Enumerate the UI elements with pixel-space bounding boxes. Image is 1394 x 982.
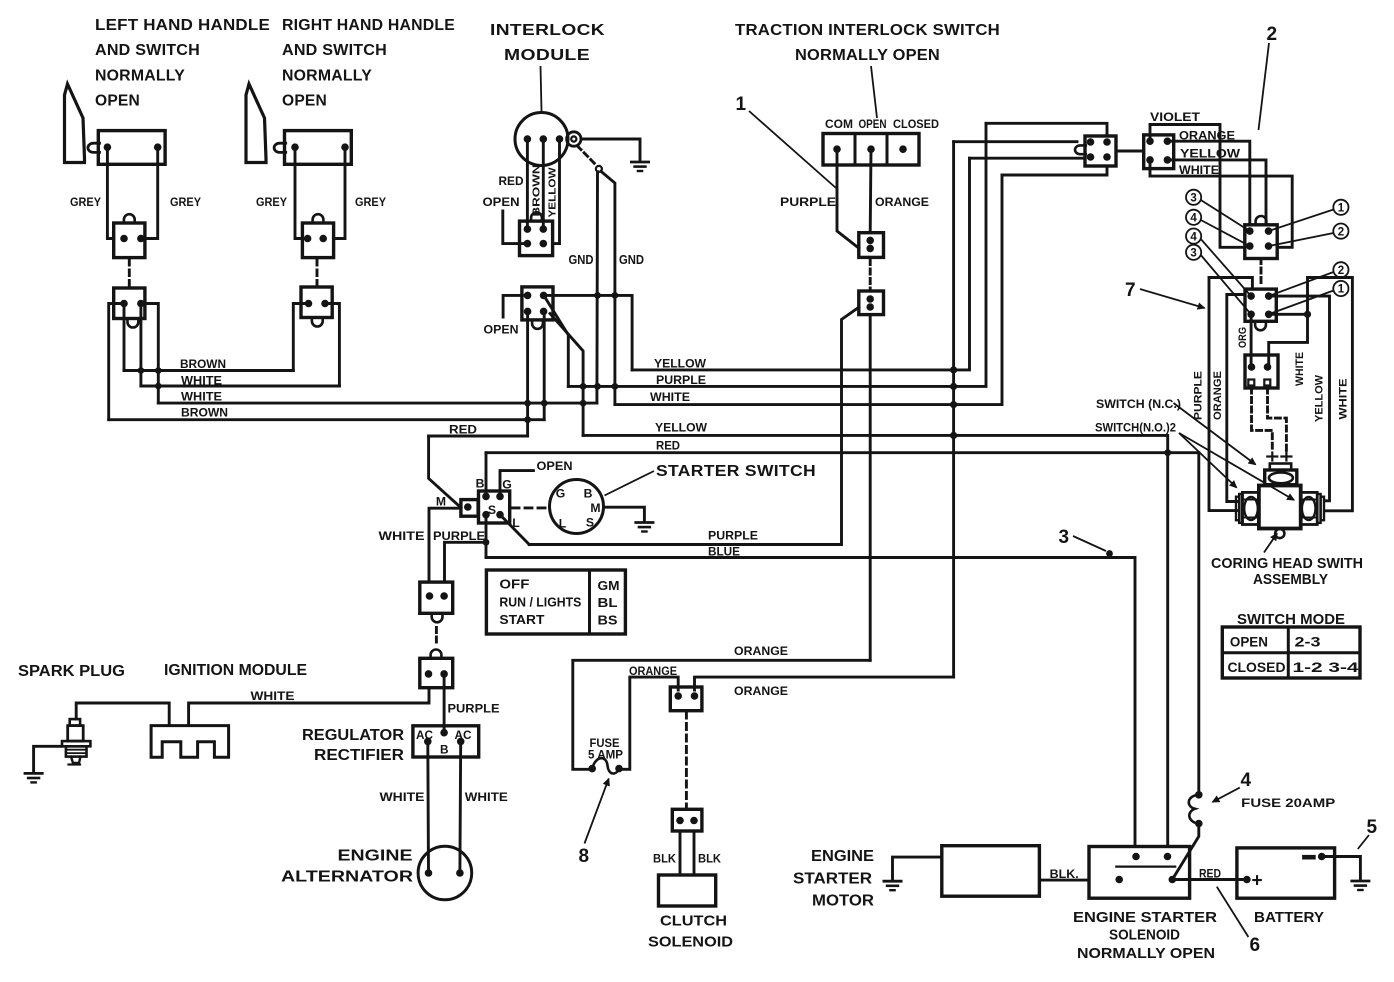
svg-text:YELLOW: YELLOW: [654, 357, 706, 371]
svg-text:3: 3: [1059, 527, 1070, 548]
svg-text:PURPLE: PURPLE: [708, 529, 758, 543]
ground (starter switch): [636, 521, 653, 524]
wire dashed mating link P1-P2: [128, 260, 131, 287]
handle switch S2 (right) body: [285, 131, 352, 165]
junction: [524, 416, 531, 423]
svg-text:PURPLE: PURPLE: [780, 195, 836, 209]
wire motor ground: [893, 857, 942, 880]
svg-text:GM: GM: [598, 578, 620, 593]
wire spark plug lead: [76, 703, 169, 726]
engine starter motor M1 body: [942, 846, 1040, 897]
wire dashed mating link P7-P8: [869, 260, 872, 290]
interlock module U1 body (circle): [515, 113, 568, 166]
fuse F2 20A element: [1189, 795, 1199, 824]
svg-text:BL: BL: [598, 595, 618, 610]
svg-text:CLOSED: CLOSED: [893, 117, 939, 131]
svg-text:8: 8: [579, 846, 590, 867]
svg-text:1: 1: [1338, 284, 1345, 296]
svg-text:RIGHT HAND HANDLE: RIGHT HAND HANDLE: [282, 17, 455, 34]
junction: [594, 383, 601, 390]
junction: [524, 400, 531, 407]
svg-text:OPEN: OPEN: [95, 93, 140, 110]
svg-text:S: S: [586, 516, 594, 530]
svg-text:OFF: OFF: [499, 577, 529, 592]
wire ORANGE line 1 (traction to fuse): [573, 660, 870, 769]
spark plug E1 body with thread: [66, 746, 87, 756]
svg-text:NORMALLY OPEN: NORMALLY OPEN: [1077, 945, 1215, 962]
svg-text:YELLOW: YELLOW: [547, 167, 558, 217]
main vertical bus x=953 (gnd net): [952, 142, 955, 677]
svg-text:OPEN: OPEN: [537, 459, 573, 473]
junction: [950, 401, 957, 408]
junction: [138, 367, 145, 374]
svg-text:ENGINE STARTER: ENGINE STARTER: [1073, 909, 1217, 926]
fuse F1 5A terminal dots: [588, 765, 596, 773]
svg-text:3: 3: [1190, 248, 1196, 260]
wire ORG from P12 to P13: [1250, 314, 1253, 367]
svg-text:2: 2: [1338, 265, 1344, 277]
svg-text:WHITE: WHITE: [650, 390, 690, 404]
svg-text:OPEN: OPEN: [483, 195, 520, 209]
svg-text:SWITCH(N.O.)2: SWITCH(N.O.)2: [1095, 421, 1176, 435]
svg-text:YELLOW: YELLOW: [1180, 146, 1240, 160]
wire dashed S link: [512, 506, 549, 509]
wire dashed coring switch lead 2: [1268, 388, 1287, 452]
wire PURPLE to regulator connector: [445, 542, 487, 582]
wire rail (yellow) to P9 bottom-left pin: [970, 157, 1086, 160]
circled pin number 4: [1186, 210, 1201, 225]
wire GREY (left handle, left): [107, 147, 113, 238]
spark plug E1 flange: [62, 741, 90, 746]
svg-text:4: 4: [1190, 231, 1197, 243]
svg-text:5 AMP: 5 AMP: [588, 748, 623, 762]
handle switch S1 terminals: [104, 143, 112, 151]
svg-text:1-2 3-4: 1-2 3-4: [1293, 660, 1360, 675]
svg-text:OPEN: OPEN: [859, 117, 887, 131]
connector P8 (traction lower): [859, 291, 884, 315]
svg-text:GREY: GREY: [170, 195, 201, 209]
wire WHITE inner to P13: [1269, 314, 1308, 367]
spark plug E1 cap: [70, 719, 80, 726]
leader circled 4 to pin: [1201, 220, 1250, 246]
wire BROWN bus (upper): [124, 369, 293, 372]
wire RED slant into M bracket: [429, 436, 461, 508]
wire GREY (left handle, right): [145, 147, 158, 238]
svg-text:BATTERY: BATTERY: [1254, 909, 1324, 926]
svg-text:L: L: [559, 517, 567, 531]
spark plug E1 tip: [71, 757, 81, 763]
starter switch S4 connector body: [479, 491, 510, 523]
circled pin number 3b: [1186, 245, 1201, 260]
junction: [950, 432, 957, 439]
connector P1 (left handle upper): [114, 223, 145, 258]
clutch solenoid K1 body: [659, 875, 716, 906]
svg-text:SOLENOID: SOLENOID: [648, 934, 733, 951]
svg-text:BLK: BLK: [698, 852, 721, 866]
wire WHITE ignition module to regulator connector: [189, 688, 429, 726]
svg-text:IGNITION MODULE: IGNITION MODULE: [164, 662, 307, 679]
connector P12 (coring lower): [1245, 289, 1276, 321]
engine starter solenoid K2 body: [1089, 847, 1190, 899]
circled pin number 4b: [1186, 229, 1201, 244]
handle switch S1 (left) body: [98, 131, 165, 165]
svg-text:6: 6: [1250, 935, 1261, 956]
wire PURPLE line 1: [568, 123, 986, 386]
svg-text:RED: RED: [449, 423, 477, 437]
wire ORANGE line 3 (clutch to main bus): [695, 677, 954, 690]
junction: [950, 383, 957, 390]
wire RED (short, to starter M terminal): [429, 435, 528, 438]
wire from RED line up to P6 pin: [526, 311, 529, 436]
starter switch position table: [486, 570, 625, 634]
svg-text:RUN / LIGHTS: RUN / LIGHTS: [499, 595, 581, 610]
svg-text:SOLENOID: SOLENOID: [1109, 927, 1180, 944]
connector P3 (right handle upper): [302, 223, 333, 258]
connector P9 loop tab: [1075, 145, 1086, 154]
svg-text:NORMALLY: NORMALLY: [282, 67, 372, 84]
wire from S pins down (purple/blue feeders): [485, 515, 488, 558]
svg-text:BS: BS: [598, 613, 619, 628]
svg-text:2: 2: [1338, 226, 1344, 238]
wire rail to connector P9 top-left pin: [954, 140, 1077, 143]
leader circled 2 to pin: [1269, 233, 1334, 246]
svg-text:4: 4: [1190, 213, 1197, 225]
wire PURPLE connector to regulator B: [443, 674, 446, 731]
interlock module U1 pins: [524, 135, 532, 143]
spark plug E1 insulator: [68, 726, 84, 742]
ignition module U3 body: [151, 726, 229, 758]
connector P13 (coring switch leads): [1245, 355, 1278, 388]
handle blade (left): [65, 84, 85, 163]
svg-text:OPEN: OPEN: [282, 93, 327, 110]
wire to chassis ground from ring terminal: [581, 139, 640, 161]
svg-text:ORG: ORG: [1237, 327, 1249, 348]
svg-text:M: M: [436, 495, 446, 509]
wire dashed from ring terminal to GND node: [578, 146, 597, 166]
svg-text:3: 3: [1190, 193, 1196, 205]
junction: [594, 292, 601, 299]
svg-text:2: 2: [1267, 24, 1278, 45]
wire OPEN stub at P5: [503, 211, 528, 244]
coring head switch assembly S5: bottom boss: [1275, 529, 1284, 538]
svg-text:NORMALLY OPEN: NORMALLY OPEN: [795, 47, 940, 64]
handle blade (right): [246, 84, 266, 163]
svg-text:B: B: [440, 743, 449, 757]
junction: [950, 366, 957, 373]
svg-text:AND SWITCH: AND SWITCH: [95, 42, 200, 59]
svg-text:LEFT HAND HANDLE: LEFT HAND HANDLE: [95, 17, 270, 34]
ground (starter motor): [884, 880, 901, 883]
junction: [1164, 449, 1171, 456]
wire YELLOW line 2: [583, 435, 1168, 846]
node GND (small circle): [596, 166, 602, 172]
coring head switch assembly S5: top gland: [1270, 464, 1291, 471]
connector P17 (regulator lower): [420, 658, 453, 687]
wire GND 1 (to left white bus): [595, 172, 598, 403]
svg-text:NORMALLY: NORMALLY: [95, 67, 185, 84]
wire RED line 2 (B terminal to fuse 20A): [486, 453, 1199, 794]
leader circled 4b to pin: [1201, 239, 1251, 296]
wire dashed mating link P16-P17: [435, 628, 438, 646]
svg-text:WHITE: WHITE: [465, 790, 508, 804]
connector P11 (coring upper): [1245, 225, 1277, 259]
svg-text:WHITE: WHITE: [1179, 163, 1219, 177]
wire dashed mating link P3-P4: [316, 260, 319, 286]
svg-text:REGULATOR: REGULATOR: [302, 727, 404, 744]
terminal tick marks: [1267, 455, 1277, 457]
svg-text:WHITE: WHITE: [380, 790, 425, 804]
svg-text:BLK.: BLK.: [1050, 867, 1079, 881]
leader circled 2b to pin: [1269, 272, 1334, 296]
wire WHITE bus (lower): [158, 402, 597, 405]
svg-text:B: B: [476, 477, 485, 491]
wire WHITE regulator to alternator (right): [458, 741, 462, 873]
connector P6 (interlock lower): [522, 287, 553, 320]
wire from P6 to yellow feeder (gnd net): [544, 295, 633, 370]
engine alternator G1 body: [418, 846, 472, 900]
coring head switch assembly S5: right gland: [1301, 492, 1317, 524]
leader to interlock module: [541, 66, 542, 111]
leader to traction interlock switch: [871, 66, 877, 118]
wire BROWN from module to connector P5: [542, 139, 545, 229]
wire from BROWN bus up to P6 pin: [543, 311, 546, 419]
svg-text:7: 7: [1125, 280, 1136, 301]
wire ORANGE from P8 down to orange line: [869, 315, 872, 661]
ring terminal at interlock module: [567, 132, 581, 146]
svg-text:VIOLET: VIOLET: [1150, 110, 1200, 124]
wire L terminal slant to PURPLE line: [500, 515, 529, 545]
leader from label to assembly: [1264, 534, 1277, 553]
M terminal bracket: [461, 500, 478, 517]
connector P4 (right handle lower): [301, 287, 332, 318]
svg-text:INTERLOCK: INTERLOCK: [490, 22, 606, 39]
svg-text:ENGINE: ENGINE: [338, 848, 413, 865]
svg-text:SWITCH (N.C.): SWITCH (N.C.): [1096, 397, 1181, 411]
ground (interlock module): [631, 161, 648, 164]
svg-text:ORANGE: ORANGE: [734, 644, 788, 658]
svg-text:YELLOW: YELLOW: [655, 421, 707, 435]
wire from P2 left pin down to BROWN bus (upper): [123, 304, 126, 371]
svg-text:ORANGE: ORANGE: [1179, 129, 1235, 143]
wire spark plug ground: [34, 746, 62, 772]
wire YELLOW from P12 TR pin: [1269, 296, 1330, 501]
svg-text:CLOSED: CLOSED: [1228, 660, 1286, 675]
coring head switch assembly S5: body cube: [1259, 486, 1301, 529]
starter switch S4 rotary body (circle): [550, 480, 604, 534]
fuse F2 20A terminal dots: [1195, 791, 1203, 799]
svg-text:GREY: GREY: [70, 195, 101, 209]
svg-text:M: M: [590, 501, 600, 515]
svg-text:PURPLE: PURPLE: [656, 373, 706, 387]
svg-text:G: G: [502, 478, 511, 492]
label - terminal: [1304, 855, 1313, 860]
wire WHITE line (right part): [615, 175, 1002, 405]
circled pin number 1: [1333, 200, 1348, 215]
svg-text:WHITE: WHITE: [1294, 351, 1306, 386]
battery BT1 body: [1237, 848, 1335, 898]
wire OPEN stub at P6: [503, 295, 527, 317]
svg-text:B: B: [584, 487, 593, 501]
wire VIOLET from P10 to coring connector: [1150, 125, 1245, 248]
svg-text:ALTERNATOR: ALTERNATOR: [281, 869, 413, 886]
svg-text:GREY: GREY: [355, 195, 386, 209]
wire BLK right to clutch solenoid: [693, 831, 696, 875]
wire from P2 right pin down to WHITE bus (upper): [139, 304, 142, 387]
svg-text:AC: AC: [455, 728, 472, 742]
wire BLK left to clutch solenoid: [679, 831, 682, 875]
junction: [580, 383, 587, 390]
svg-text:BROWN: BROWN: [532, 165, 543, 217]
svg-text:ENGINE: ENGINE: [811, 848, 874, 865]
circled pin number 2b: [1333, 262, 1348, 277]
ground (spark plug): [25, 772, 42, 775]
svg-text:STARTER: STARTER: [793, 871, 872, 888]
fuse F1 5A element: [592, 758, 619, 773]
handle switch S1 left loop tab: [88, 143, 100, 152]
wire from P4 left pin to BROWN bus end: [293, 304, 308, 371]
leader circled 3b to pin: [1201, 255, 1251, 314]
connector P2 (left handle lower): [114, 288, 145, 319]
wire WHITE bus (upper): [141, 385, 340, 388]
ground (battery): [1352, 880, 1369, 883]
handle switch S2 left loop tab: [274, 143, 286, 152]
junction: [483, 539, 490, 546]
svg-text:WHITE: WHITE: [379, 529, 425, 543]
svg-text:STARTER SWITCH: STARTER SWITCH: [656, 463, 816, 480]
svg-text:4: 4: [1241, 770, 1252, 791]
regulator rectifier U2 body: [413, 726, 479, 757]
wire from P2 left pin to BROWN bus (lower): [109, 304, 124, 420]
svg-text:ORANGE: ORANGE: [629, 664, 677, 678]
wire fuse F1 right leg: [623, 677, 679, 769]
junction: [155, 383, 162, 390]
wire YELLOW from P10 to coring connector: [1167, 160, 1266, 225]
wire B terminal to RED line 2: [485, 453, 488, 497]
connector P16 (regulator upper): [420, 582, 453, 613]
svg-text:COM: COM: [825, 117, 853, 131]
svg-text:CORING HEAD SWITH: CORING HEAD SWITH: [1211, 555, 1363, 572]
svg-text:GND: GND: [569, 253, 594, 267]
svg-text:WHITE: WHITE: [251, 689, 295, 703]
svg-text:START: START: [499, 612, 544, 627]
svg-text:BLUE: BLUE: [708, 545, 740, 559]
wire PURPLE from COM terminal: [837, 149, 859, 248]
wire dashed mating link P14-P15: [685, 712, 688, 808]
wire G terminal OPEN stub: [500, 471, 533, 497]
svg-text:MOTOR: MOTOR: [812, 893, 874, 910]
svg-text:WHITE: WHITE: [1338, 378, 1350, 420]
wire ORANGE from P10 to coring connector: [1167, 141, 1249, 225]
wire PURPLE outer box left: [1209, 278, 1252, 511]
svg-text:ORANGE: ORANGE: [1212, 370, 1224, 420]
coring head switch assembly S5: left gland: [1236, 497, 1239, 521]
wire diagonal from P6 to yellow line 2: [550, 314, 583, 436]
wire GREY (right handle, left): [295, 147, 302, 238]
wire battery negative to ground: [1322, 857, 1361, 881]
circled pin number 1b: [1333, 281, 1348, 296]
wire fuse F2 to solenoid terminal: [1172, 824, 1199, 880]
leader circled 1b to pin: [1269, 291, 1334, 315]
svg-text:1: 1: [1338, 203, 1345, 215]
svg-text:TRACTION INTERLOCK SWITCH: TRACTION INTERLOCK SWITCH: [735, 22, 1000, 39]
svg-text:PURPLE: PURPLE: [1193, 370, 1205, 420]
wire ORANGE inner box left: [1227, 295, 1245, 502]
svg-text:ORANGE: ORANGE: [734, 684, 788, 698]
svg-text:BLK: BLK: [653, 852, 676, 866]
svg-text:PURPLE: PURPLE: [448, 702, 500, 716]
leader circled 1 to pin: [1269, 210, 1334, 232]
wire GREY (right handle, right): [334, 147, 345, 238]
connector P9 (harness, left): [1085, 136, 1116, 166]
wire diagonal from P6 to purple line: [546, 299, 568, 386]
wire RED solenoid to battery: [1172, 878, 1247, 881]
connector P10 (harness, right / VIOLET): [1144, 135, 1174, 169]
circled pin number 3: [1186, 190, 1201, 205]
wire YELLOW from module to connector P5: [553, 139, 560, 244]
connector P5 (interlock upper): [520, 221, 553, 256]
svg-text:CLUTCH: CLUTCH: [660, 913, 727, 930]
svg-text:WHITE: WHITE: [181, 390, 222, 404]
wire PURPLE line (L to traction interlock): [529, 307, 859, 544]
svg-text:BROWN: BROWN: [180, 357, 226, 371]
wire from P4 right pin to WHITE bus end: [325, 304, 339, 387]
svg-text:AC: AC: [416, 728, 433, 742]
svg-text:2-3: 2-3: [1295, 635, 1322, 650]
svg-text:ORANGE: ORANGE: [875, 195, 929, 209]
svg-text:YELLOW: YELLOW: [1313, 375, 1325, 422]
svg-text:MODULE: MODULE: [504, 47, 590, 64]
handle switch S2 terminals: [291, 143, 299, 151]
wire rail (purple) to P9 top-right pin: [986, 123, 1107, 136]
junction: [1304, 311, 1311, 318]
wire WHITE from P10 to coring connector: [1150, 160, 1292, 247]
wire rail (white) to P9 bottom-right pin: [1002, 166, 1107, 175]
wire from P2 right pin to WHITE bus (lower): [141, 304, 158, 404]
connector P14 (clutch upper): [670, 687, 702, 711]
wire BROWN bus (lower): [109, 418, 545, 421]
svg-text:BROWN: BROWN: [181, 406, 228, 420]
svg-text:RED: RED: [656, 439, 680, 453]
wire WHITE regulator to alternator (left): [426, 741, 430, 873]
solenoid contact bar: [1116, 865, 1175, 867]
traction interlock switch S3 body: [823, 134, 919, 166]
wire dashed mating link P11-P12: [1260, 259, 1263, 288]
svg-text:GND: GND: [619, 253, 644, 267]
wire dashed coring switch lead 1: [1252, 388, 1273, 452]
wire M terminal to ground: [604, 507, 645, 521]
connector P7 (traction upper): [859, 233, 884, 258]
wire WHITE outer box right: [1308, 278, 1353, 511]
wire BLK motor to solenoid: [1039, 879, 1089, 882]
svg-text:RECTIFIER: RECTIFIER: [314, 747, 404, 764]
svg-text:GREY: GREY: [256, 195, 287, 209]
svg-text:ASSEMBLY: ASSEMBLY: [1253, 571, 1328, 588]
wire WHITE from M bracket to regulator connector: [429, 508, 461, 582]
wire ORANGE from OPEN terminal: [869, 149, 873, 233]
svg-text:OPEN: OPEN: [1230, 635, 1268, 650]
circled pin number 2: [1333, 224, 1348, 239]
svg-text:SPARK PLUG: SPARK PLUG: [18, 663, 125, 680]
connector P15 (clutch lower): [672, 809, 702, 831]
leader circled 3 to pin: [1201, 200, 1250, 231]
svg-text:S: S: [488, 503, 496, 517]
wire mating link P9-P10: [1116, 150, 1144, 153]
svg-text:OPEN: OPEN: [484, 323, 519, 337]
svg-text:RED: RED: [499, 174, 524, 188]
svg-text:+: +: [1252, 871, 1263, 892]
wire RED from module to connector P5: [526, 139, 529, 229]
wire YELLOW line 1: [632, 158, 969, 370]
